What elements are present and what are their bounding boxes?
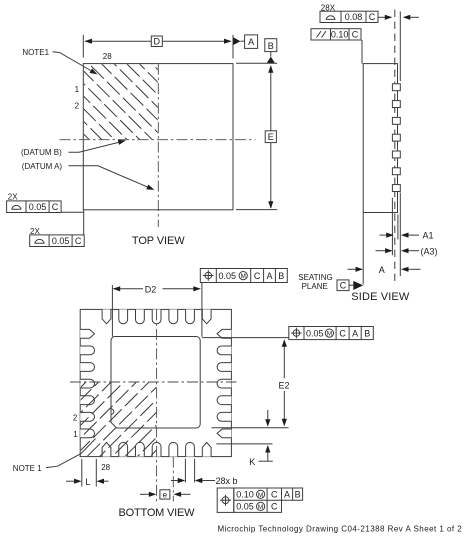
pad pitch centerline xyxy=(172,457,174,502)
dimension L xyxy=(81,459,83,487)
lead plane dashed line xyxy=(394,10,396,282)
svg-text:28x b: 28x b xyxy=(216,476,238,486)
svg-text:28: 28 xyxy=(101,463,110,472)
svg-text:C: C xyxy=(340,280,347,290)
svg-text:0.05: 0.05 xyxy=(52,236,70,246)
svg-text:0.10: 0.10 xyxy=(236,490,254,500)
svg-text:(DATUM B): (DATUM B) xyxy=(21,148,62,157)
dimension K xyxy=(216,443,272,445)
svg-text:0.05: 0.05 xyxy=(29,202,47,212)
position frame double xyxy=(217,488,234,512)
terminal squares xyxy=(392,84,400,91)
dimension A xyxy=(348,268,356,270)
dimension e xyxy=(140,493,149,495)
svg-text:Microchip Technology Drawing: Microchip Technology Drawing C04-21388 R… xyxy=(218,525,463,534)
parallelism leader xyxy=(361,40,363,64)
datum C triangle xyxy=(353,281,363,290)
svg-text:C: C xyxy=(75,236,82,246)
dimension b xyxy=(184,459,186,483)
top view package outline xyxy=(83,64,233,210)
svg-text:E2: E2 xyxy=(279,380,290,390)
svg-text:SEATING: SEATING xyxy=(298,273,333,282)
datum A triangle xyxy=(233,37,240,45)
dimension D line xyxy=(85,40,151,42)
svg-text:0.10: 0.10 xyxy=(331,29,349,39)
svg-text:M: M xyxy=(240,273,245,280)
top view vertical centerline xyxy=(157,64,159,227)
label D box xyxy=(151,36,162,47)
bottom view horizontal centerline xyxy=(70,381,237,383)
bottom row pads xyxy=(102,442,111,456)
side view body xyxy=(363,64,397,213)
svg-text:0.08: 0.08 xyxy=(345,12,363,22)
svg-text:0.05: 0.05 xyxy=(219,271,237,281)
svg-text:A: A xyxy=(266,271,272,281)
seating plane extension left xyxy=(362,213,364,285)
top view horizontal centerline xyxy=(60,139,256,141)
svg-text:BOTTOM VIEW: BOTTOM VIEW xyxy=(119,507,196,519)
dimension D extension line right xyxy=(232,35,234,59)
svg-text:L: L xyxy=(85,477,90,487)
svg-text:C: C xyxy=(352,29,359,39)
bottom view hatch xyxy=(80,311,220,464)
datum B box xyxy=(265,39,277,52)
svg-text:2: 2 xyxy=(75,102,80,111)
svg-text:0.05: 0.05 xyxy=(306,328,324,338)
svg-text:2: 2 xyxy=(73,414,78,423)
datum B triangle xyxy=(270,52,272,57)
pin1 index bump on exposed pad xyxy=(111,409,114,415)
seating plane line upper xyxy=(399,12,401,82)
svg-text:E: E xyxy=(268,132,274,142)
svg-text:TOP VIEW: TOP VIEW xyxy=(132,235,185,247)
top view hatch (note 1 area) xyxy=(83,58,223,211)
parallelism 0.10 frame xyxy=(311,29,361,40)
dimension D2 xyxy=(111,285,113,337)
svg-text:NOTE 1: NOTE 1 xyxy=(13,464,42,473)
svg-text:B: B xyxy=(268,41,274,51)
svg-text:C: C xyxy=(271,502,278,512)
profile 0.08 frame xyxy=(320,11,378,22)
position frame right xyxy=(289,327,374,340)
svg-text:M: M xyxy=(258,504,263,511)
svg-text:C: C xyxy=(254,271,261,281)
right column pads xyxy=(217,329,231,338)
svg-text:M: M xyxy=(327,331,332,338)
svg-text:D: D xyxy=(154,37,161,47)
svg-text:e: e xyxy=(163,490,168,499)
svg-text:A: A xyxy=(248,37,254,47)
svg-text:2X: 2X xyxy=(8,192,18,201)
svg-text:A: A xyxy=(352,328,358,338)
label E box xyxy=(265,131,276,143)
svg-text:SIDE VIEW: SIDE VIEW xyxy=(351,291,410,303)
seating plane line lower xyxy=(399,193,401,277)
svg-text:C: C xyxy=(369,12,376,22)
svg-text:B: B xyxy=(295,490,301,500)
svg-text:A1: A1 xyxy=(423,231,434,241)
terminal flank extension line xyxy=(391,198,393,255)
bottom view package outline xyxy=(80,309,231,456)
svg-text:C: C xyxy=(271,490,278,500)
svg-text:0.05: 0.05 xyxy=(236,502,254,512)
position frame upper xyxy=(200,269,287,283)
svg-text:M: M xyxy=(258,492,263,499)
svg-text:D2: D2 xyxy=(145,284,157,294)
dimension A1 xyxy=(380,234,387,236)
exposed pad xyxy=(111,337,200,429)
svg-text:C: C xyxy=(339,328,346,338)
svg-text:K: K xyxy=(249,457,255,467)
dimension E extension top xyxy=(236,62,277,64)
dimension D extension line left xyxy=(82,35,84,58)
dimension E line xyxy=(270,66,272,131)
svg-text:C: C xyxy=(52,202,59,212)
0.08 zone arrows xyxy=(378,16,385,18)
top row pads xyxy=(102,309,111,323)
dimension E2 xyxy=(202,337,289,339)
svg-text:A: A xyxy=(379,265,385,275)
svg-text:(DATUM A): (DATUM A) xyxy=(22,162,63,171)
bottom view vertical centerline xyxy=(156,309,158,501)
svg-text:1: 1 xyxy=(73,430,78,439)
body edge extension line xyxy=(397,215,399,240)
datum A box xyxy=(245,35,258,49)
left column pads xyxy=(80,329,94,338)
svg-text:28: 28 xyxy=(103,52,112,61)
svg-text:PLANE: PLANE xyxy=(302,282,328,291)
svg-text:B: B xyxy=(364,328,370,338)
svg-text:1: 1 xyxy=(75,85,80,94)
svg-text:(A3): (A3) xyxy=(421,246,438,256)
dimension E extension bottom xyxy=(236,209,277,211)
datum C box xyxy=(337,280,349,291)
svg-text:NOTE1: NOTE1 xyxy=(22,48,49,57)
svg-text:B: B xyxy=(278,271,284,281)
svg-text:A: A xyxy=(284,490,290,500)
dimension (A3) xyxy=(376,250,386,252)
